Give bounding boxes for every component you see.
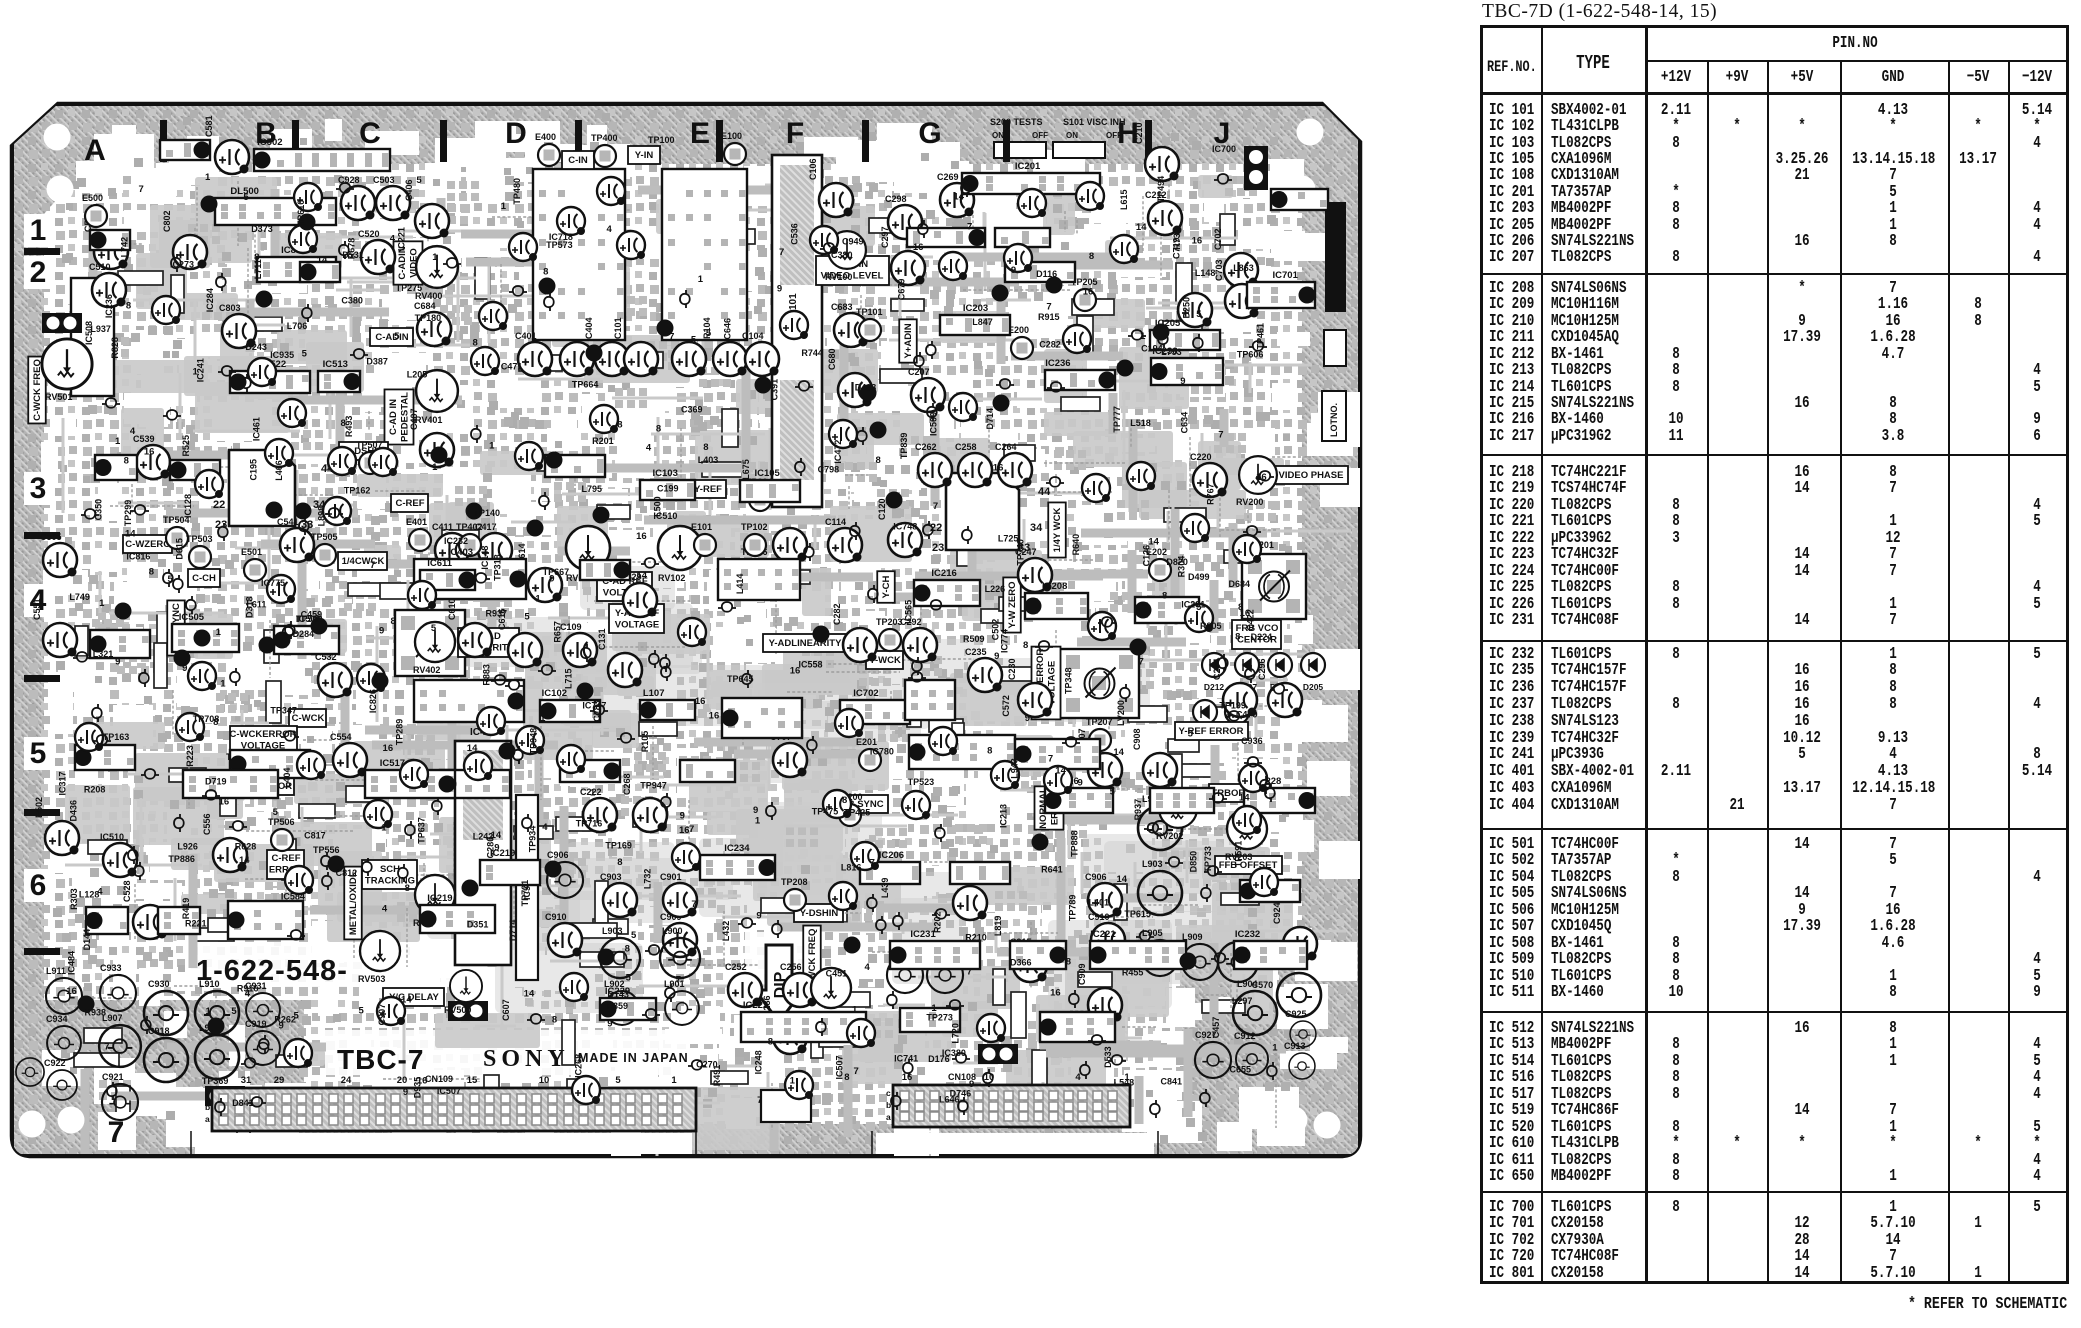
svg-text:7: 7 <box>1218 429 1223 440</box>
capacitor C910 <box>548 923 582 957</box>
svg-text:TP140: TP140 <box>474 508 501 518</box>
svg-text:IC507: IC507 <box>437 1086 461 1096</box>
label C-ERROR <box>245 777 294 795</box>
grid tick <box>1145 120 1152 162</box>
svg-text:C-AD IN: C-AD IN <box>388 399 399 435</box>
IC U <box>1150 788 1214 813</box>
IC U <box>905 680 955 720</box>
svg-text:C479: C479 <box>1236 710 1258 720</box>
label Y-REF ERROR <box>1175 722 1248 740</box>
inductor C912 <box>1236 1043 1268 1075</box>
IC U <box>907 228 986 247</box>
svg-text:C798: C798 <box>818 464 840 474</box>
svg-text:R805: R805 <box>1200 621 1222 631</box>
label Y/C DELAY <box>383 988 444 1006</box>
svg-text:1: 1 <box>99 598 105 609</box>
IC U <box>158 907 200 934</box>
IC IC216 <box>914 580 981 606</box>
svg-text:RV401: RV401 <box>415 415 442 425</box>
svg-text:9: 9 <box>278 1020 283 1031</box>
svg-text:C908: C908 <box>1132 728 1142 750</box>
svg-text:8: 8 <box>1066 956 1071 967</box>
svg-text:L816: L816 <box>841 863 862 873</box>
svg-text:16: 16 <box>383 743 394 754</box>
svg-text:C817: C817 <box>304 830 326 840</box>
svg-text:L819: L819 <box>993 916 1003 937</box>
svg-text:R657: R657 <box>553 621 563 643</box>
svg-text:ON: ON <box>1066 131 1078 140</box>
testpoint TP503 <box>189 546 211 568</box>
IC IC702 <box>840 700 910 724</box>
svg-text:TP839: TP839 <box>899 433 909 460</box>
svg-text:C210: C210 <box>1134 122 1144 144</box>
svg-text:IC281: IC281 <box>1181 600 1205 610</box>
svg-text:D373: D373 <box>251 224 273 234</box>
IC L107 <box>640 700 696 720</box>
svg-text:C199: C199 <box>657 484 679 494</box>
svg-text:Y-W ZERO: Y-W ZERO <box>1007 582 1018 629</box>
svg-text:IC701: IC701 <box>1273 270 1299 281</box>
svg-text:a: a <box>205 1114 210 1124</box>
svg-text:C-CH: C-CH <box>192 573 216 584</box>
capacitor C924 <box>1283 927 1317 961</box>
svg-text:TP100: TP100 <box>648 135 675 145</box>
svg-text:L900: L900 <box>662 926 683 936</box>
IC700 jumper block <box>1244 146 1268 190</box>
svg-text:IC558: IC558 <box>799 660 823 670</box>
svg-text:C551: C551 <box>32 598 42 620</box>
svg-text:8: 8 <box>552 1015 557 1026</box>
IC U <box>950 862 1010 884</box>
svg-text:D714: D714 <box>985 408 995 430</box>
svg-text:Y-IN: Y-IN <box>635 150 654 161</box>
capacitor C610 <box>458 623 492 657</box>
svg-text:5: 5 <box>168 574 174 585</box>
svg-text:R509: R509 <box>963 634 985 644</box>
svg-text:6: 6 <box>30 869 47 902</box>
capacitor IC510 <box>103 843 137 877</box>
svg-text:14: 14 <box>1113 747 1124 758</box>
capacitor C269 <box>940 183 974 217</box>
trimmer RV400 <box>416 246 458 288</box>
svg-text:4: 4 <box>382 904 388 915</box>
inductor L905 <box>1142 940 1178 976</box>
IC U <box>909 735 1016 769</box>
svg-text:L611: L611 <box>246 599 266 609</box>
svg-text:IC148: IC148 <box>480 546 490 570</box>
capacitor C417 <box>478 533 512 567</box>
svg-text:C294: C294 <box>1212 658 1222 680</box>
svg-text:L715: L715 <box>563 668 573 689</box>
svg-text:R937: R937 <box>485 609 507 619</box>
svg-text:L205: L205 <box>407 370 428 380</box>
svg-text:TP591: TP591 <box>1234 841 1244 868</box>
svg-text:C901: C901 <box>660 872 682 882</box>
svg-text:IC403: IC403 <box>448 547 473 558</box>
svg-text:C262: C262 <box>915 442 937 452</box>
svg-text:8: 8 <box>768 1036 773 1047</box>
inductor C922 <box>47 1070 77 1100</box>
svg-text:C802: C802 <box>162 210 172 232</box>
capacitor C256 <box>783 973 817 1007</box>
svg-text:7: 7 <box>676 974 681 985</box>
capacitor C114 <box>828 528 862 562</box>
testpoint TP506 <box>271 829 293 851</box>
svg-text:16: 16 <box>636 531 647 542</box>
svg-text:D533: D533 <box>1103 1046 1113 1068</box>
IC IC205 <box>1150 330 1220 350</box>
svg-text:C369: C369 <box>681 405 703 415</box>
IC IC801 <box>257 257 336 282</box>
testpoint TP206 <box>744 559 766 581</box>
svg-text:1: 1 <box>381 822 387 833</box>
svg-text:L720: L720 <box>951 1023 961 1044</box>
svg-text:LOTNO.: LOTNO. <box>1329 403 1339 437</box>
svg-text:VIDEO PHASE: VIDEO PHASE <box>1279 470 1344 481</box>
svg-text:TP888: TP888 <box>1070 830 1080 857</box>
svg-text:8: 8 <box>124 456 129 467</box>
grid tick <box>1003 120 1010 162</box>
capacitor C230 <box>1018 683 1052 717</box>
svg-text:E101: E101 <box>691 522 712 532</box>
svg-text:D224: D224 <box>1251 632 1273 642</box>
svg-text:14: 14 <box>401 995 412 1006</box>
svg-text:8: 8 <box>254 252 259 263</box>
svg-text:IC513: IC513 <box>323 359 348 370</box>
capacitor C104 <box>745 342 779 376</box>
testpoint TP102 <box>744 534 766 556</box>
svg-text:31: 31 <box>241 1075 252 1086</box>
svg-text:TP480: TP480 <box>512 178 522 205</box>
svg-text:8: 8 <box>844 1072 849 1083</box>
label FRB VCO CENTOR <box>1232 620 1281 649</box>
svg-text:TP402: TP402 <box>456 522 483 532</box>
jumper block <box>978 1044 1018 1064</box>
svg-text:1: 1 <box>30 214 47 247</box>
svg-text:8: 8 <box>1162 591 1167 602</box>
svg-text:METAL/OXIDE: METAL/OXIDE <box>348 871 359 935</box>
svg-text:C-REF: C-REF <box>395 498 424 509</box>
svg-text:IC780: IC780 <box>870 747 894 757</box>
mounting hole <box>58 1107 85 1134</box>
trimmer RV203 <box>1227 809 1267 849</box>
svg-text:L847: L847 <box>972 317 993 327</box>
svg-text:IC502: IC502 <box>257 137 282 148</box>
svg-text:C919: C919 <box>245 1019 267 1029</box>
label C-IN <box>562 151 594 169</box>
svg-text:D250: D250 <box>1181 297 1191 319</box>
capacitor C210 <box>1145 147 1179 181</box>
capacitor C614 <box>528 568 562 602</box>
svg-text:5: 5 <box>1196 309 1202 320</box>
svg-text:C921: C921 <box>102 1072 124 1082</box>
svg-text:C101: C101 <box>613 317 623 339</box>
svg-text:L937: L937 <box>90 324 111 334</box>
svg-text:4: 4 <box>646 442 652 453</box>
svg-text:IC565: IC565 <box>903 600 913 624</box>
mounting hole <box>44 124 71 151</box>
svg-text:IC232: IC232 <box>1235 929 1260 940</box>
svg-text:RV100: RV100 <box>825 272 852 282</box>
svg-text:RV402: RV402 <box>413 665 440 675</box>
IC IC238 <box>1151 358 1224 385</box>
svg-text:IC128: IC128 <box>183 494 193 518</box>
svg-text:L226: L226 <box>985 584 1006 594</box>
trimmer RV500 <box>450 970 482 1002</box>
svg-text:D351: D351 <box>467 920 489 930</box>
svg-text:TP615: TP615 <box>1124 909 1151 919</box>
capacitor C401 <box>518 342 552 376</box>
label C-AD REF VOLTAGE <box>597 572 652 601</box>
svg-text:9: 9 <box>994 651 999 662</box>
svg-text:7: 7 <box>870 857 875 868</box>
svg-text:TP275: TP275 <box>396 283 423 293</box>
svg-text:1: 1 <box>535 594 541 605</box>
capacitor C551 <box>43 623 77 657</box>
svg-text:1: 1 <box>931 1003 937 1014</box>
testpoint E101 <box>694 534 716 556</box>
svg-text:1: 1 <box>698 274 704 285</box>
svg-text:9: 9 <box>549 574 554 585</box>
svg-text:IC236: IC236 <box>104 294 114 318</box>
svg-text:C907: C907 <box>377 1004 387 1026</box>
inductor L <box>887 957 923 993</box>
IC U <box>680 760 735 782</box>
svg-text:Y-REF: Y-REF <box>694 484 722 495</box>
svg-text:C539: C539 <box>133 434 155 444</box>
svg-text:R303: R303 <box>69 888 79 910</box>
svg-text:7: 7 <box>104 1041 109 1052</box>
svg-text:IC221: IC221 <box>1090 929 1116 940</box>
label C-CH <box>188 569 220 587</box>
svg-text:8: 8 <box>1023 640 1028 651</box>
svg-text:C230: C230 <box>1007 658 1017 680</box>
svg-text:C906: C906 <box>1085 872 1107 882</box>
svg-text:C235: C235 <box>965 647 987 657</box>
svg-text:IC747: IC747 <box>582 701 606 711</box>
label Y-WCK ERROR VOLTAGE <box>1032 647 1061 720</box>
svg-text:L863: L863 <box>1233 263 1254 273</box>
svg-text:C934: C934 <box>46 1014 68 1024</box>
svg-text:C610: C610 <box>447 598 457 620</box>
svg-text:R828: R828 <box>110 337 120 359</box>
svg-text:8: 8 <box>987 745 992 756</box>
svg-text:IC222: IC222 <box>743 1000 768 1011</box>
svg-text:TP740: TP740 <box>1016 539 1026 566</box>
svg-text:C471: C471 <box>501 361 523 371</box>
IC U <box>900 1008 960 1032</box>
label NORMAL ERROR <box>1035 786 1064 829</box>
grid number 5 <box>24 737 54 770</box>
svg-text:Y-ADLINEARITY: Y-ADLINEARITY <box>769 638 843 649</box>
mounting hole <box>1297 119 1324 146</box>
svg-text:c: c <box>886 1088 891 1098</box>
grid number 2 <box>24 256 54 289</box>
svg-text:C350: C350 <box>93 499 103 521</box>
svg-text:TP506: TP506 <box>268 817 295 827</box>
mounting hole <box>1289 176 1316 203</box>
label Y-WCK <box>866 651 903 669</box>
grid tick <box>292 120 299 162</box>
mounting hole <box>19 1111 46 1138</box>
svg-text:16: 16 <box>144 447 155 458</box>
IC IC236 <box>1045 370 1116 390</box>
svg-text:C719: C719 <box>1171 238 1181 260</box>
svg-text:D387: D387 <box>366 356 388 366</box>
svg-text:1: 1 <box>220 678 226 689</box>
svg-text:L943: L943 <box>1010 758 1020 779</box>
testpoint TP501 <box>229 764 251 786</box>
svg-text:L148: L148 <box>1195 268 1216 278</box>
svg-text:TP318: TP318 <box>493 554 503 581</box>
svg-text:7: 7 <box>691 899 696 910</box>
svg-text:IC510: IC510 <box>100 832 124 842</box>
svg-text:9: 9 <box>494 842 499 853</box>
svg-text:D205: D205 <box>1303 682 1324 692</box>
svg-text:1: 1 <box>790 1076 796 1087</box>
svg-text:TP348: TP348 <box>1063 667 1073 694</box>
capacitor C901 <box>663 883 697 917</box>
svg-text:TP733: TP733 <box>1203 846 1213 873</box>
svg-text:C297: C297 <box>880 226 890 248</box>
diode D207 <box>1235 653 1259 677</box>
svg-text:15: 15 <box>467 1075 478 1086</box>
IC IC232 <box>1234 941 1308 969</box>
trimmer RV402 <box>415 622 455 662</box>
label Y-ADIN VIDEO LEVEL <box>816 256 889 285</box>
IC IC208 <box>1025 593 1089 619</box>
svg-text:16: 16 <box>993 463 1004 474</box>
svg-text:D499: D499 <box>1188 572 1210 582</box>
svg-text:IC248: IC248 <box>753 1050 763 1074</box>
svg-text:14: 14 <box>953 191 964 202</box>
svg-text:TBC-7: TBC-7 <box>337 1044 424 1075</box>
svg-text:D746: D746 <box>950 1089 972 1099</box>
svg-text:C922: C922 <box>44 1058 66 1068</box>
svg-text:C505: C505 <box>40 532 62 542</box>
capacitor C909 <box>1088 988 1122 1022</box>
svg-text:IC584: IC584 <box>281 891 305 901</box>
label C-REF ERROR <box>267 850 304 879</box>
inductor L902 <box>605 991 639 1025</box>
svg-text:IC509: IC509 <box>929 412 939 436</box>
svg-text:TP289: TP289 <box>395 719 405 746</box>
capacitor C <box>1178 293 1212 327</box>
label SCH TRACKING <box>362 860 417 889</box>
inductor C906 <box>547 862 583 898</box>
svg-text:TP934: TP934 <box>528 826 538 853</box>
svg-text:IC741: IC741 <box>894 1053 918 1063</box>
capacitor C556 <box>213 838 247 872</box>
svg-text:D284: D284 <box>293 629 315 639</box>
svg-text:L926: L926 <box>177 842 198 852</box>
svg-text:14: 14 <box>239 855 250 866</box>
diode D212 <box>1202 653 1226 677</box>
label C-WCKERROR VOLTAGE <box>229 726 297 755</box>
PCB board outline <box>12 104 1360 1156</box>
svg-text:TP556: TP556 <box>313 845 340 855</box>
grid tick <box>24 948 60 955</box>
svg-text:1: 1 <box>193 366 199 377</box>
svg-text:1: 1 <box>206 1006 212 1017</box>
svg-text:16: 16 <box>1240 608 1251 619</box>
svg-text:1: 1 <box>501 201 507 212</box>
testpoint E100 <box>724 143 746 165</box>
filter FL100 <box>662 169 747 340</box>
svg-text:C703: C703 <box>1214 259 1224 281</box>
svg-text:1: 1 <box>1272 1043 1278 1054</box>
svg-text:TP180: TP180 <box>415 313 442 323</box>
svg-text:C841: C841 <box>1161 1076 1183 1086</box>
capacitor C247 <box>1018 558 1052 592</box>
svg-text:E100: E100 <box>721 131 742 141</box>
svg-text:1: 1 <box>590 787 596 798</box>
testpoint TP101 <box>859 319 881 341</box>
svg-text:R223: R223 <box>185 745 195 767</box>
svg-text:TP645: TP645 <box>727 674 754 684</box>
svg-text:1: 1 <box>540 713 546 724</box>
inductor L904 <box>1233 991 1277 1035</box>
svg-text:IC203: IC203 <box>963 303 988 314</box>
svg-text:C949: C949 <box>842 237 864 247</box>
svg-text:1: 1 <box>216 627 222 638</box>
svg-text:1/4CWCK: 1/4CWCK <box>342 556 385 567</box>
testpoint E500 <box>85 205 107 227</box>
svg-text:R640: R640 <box>1071 534 1081 556</box>
IC IC102 <box>540 700 601 722</box>
svg-text:J: J <box>1214 117 1231 150</box>
svg-text:IC105: IC105 <box>754 468 780 479</box>
svg-text:8: 8 <box>405 883 410 894</box>
svg-text:L404: L404 <box>282 768 292 789</box>
svg-text:16: 16 <box>1192 236 1203 247</box>
inductor C933 <box>100 975 136 1011</box>
svg-text:9: 9 <box>1180 376 1185 387</box>
svg-text:L903: L903 <box>602 926 623 936</box>
svg-text:L732: L732 <box>643 869 653 890</box>
svg-text:VOLTAGE: VOLTAGE <box>615 620 660 631</box>
IC IC231 <box>890 941 981 969</box>
connector CN108 <box>893 1085 1130 1127</box>
IC U <box>414 680 525 722</box>
svg-text:TP610: TP610 <box>296 200 306 227</box>
svg-text:R210: R210 <box>965 932 987 942</box>
svg-text:1: 1 <box>115 436 121 447</box>
capacitor R104 <box>713 342 747 376</box>
svg-text:5: 5 <box>273 807 279 818</box>
svg-text:4: 4 <box>130 426 136 437</box>
svg-text:9: 9 <box>753 805 758 816</box>
capacitor C928 <box>341 186 375 220</box>
svg-text:L548: L548 <box>1114 1077 1135 1087</box>
inductor L907 <box>99 1025 141 1067</box>
svg-text:L439: L439 <box>880 878 890 899</box>
svg-text:C910: C910 <box>1088 912 1110 922</box>
svg-text:4: 4 <box>245 989 251 1000</box>
testpoint TP505 <box>314 544 336 566</box>
svg-text:CN109: CN109 <box>425 1074 453 1084</box>
svg-text:TP461: TP461 <box>1256 323 1266 350</box>
svg-text:C502: C502 <box>990 619 1000 641</box>
capacitor C684 <box>417 312 451 346</box>
IC IC403 <box>414 559 527 599</box>
IC U <box>1015 739 1101 769</box>
testpoint TP507 <box>359 452 381 474</box>
IC403 staircase <box>229 450 295 526</box>
svg-text:14: 14 <box>1117 874 1128 885</box>
grid tick <box>24 809 60 816</box>
IC IC513 <box>318 371 361 392</box>
